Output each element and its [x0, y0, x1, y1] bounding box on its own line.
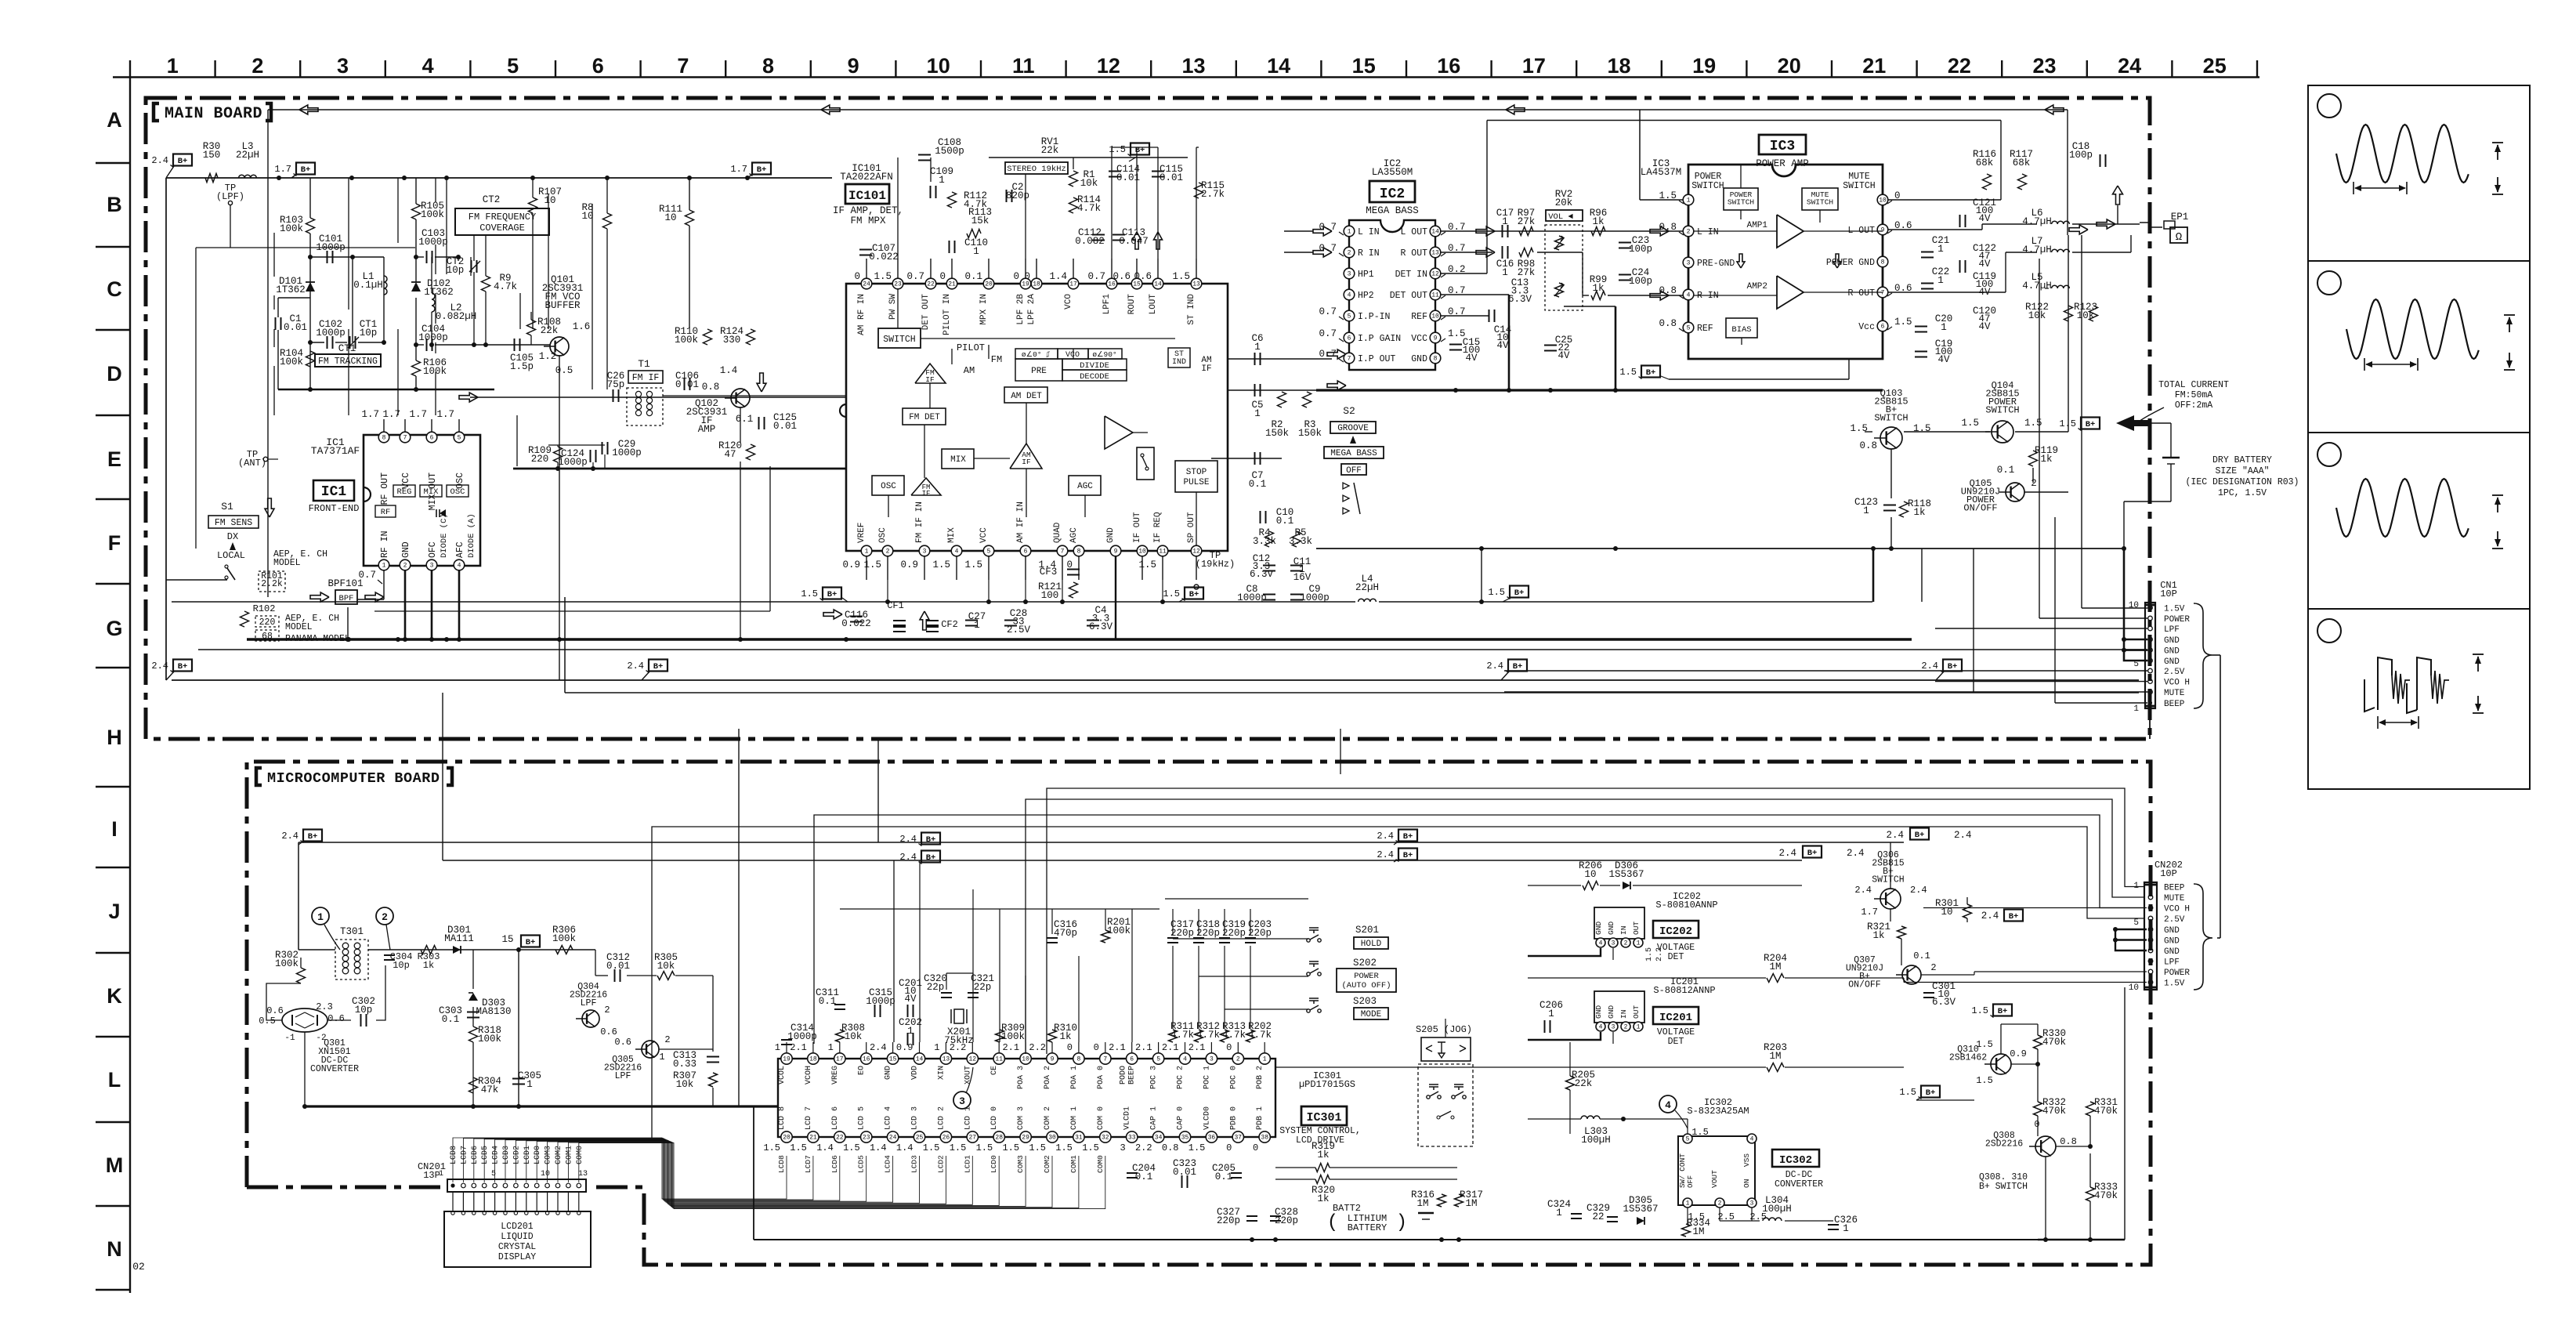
wire L1 column: [383, 257, 385, 345]
svg-text:HOLD: HOLD: [1361, 940, 1382, 949]
open arrow right into IC3 L IN: [1650, 226, 1669, 236]
svg-text:220p: 220p: [1222, 928, 1246, 939]
svg-text:1: 1: [865, 549, 869, 556]
diode D102 1T362: [411, 282, 421, 291]
trimmer CT2: [471, 260, 472, 273]
open arrow down S1: [265, 498, 274, 517]
svg-text:0.7: 0.7: [1319, 243, 1337, 254]
resistor R320 1k: [1315, 1175, 1330, 1184]
capacitor C12 3.3 6.3V: [1263, 565, 1275, 567]
capacitor C27 1: [965, 620, 978, 621]
capacitor C102 1000p: [327, 336, 328, 349]
wire Q102 column: [740, 407, 741, 443]
wire IC301 area verticals: [999, 909, 1000, 1042]
svg-text:220: 220: [531, 454, 549, 465]
svg-text:2.4: 2.4: [1377, 831, 1394, 842]
svg-text:23: 23: [2032, 54, 2056, 78]
svg-text:10k: 10k: [845, 1031, 863, 1042]
B+ label 2.4 row G left: [173, 660, 192, 672]
resistor R96 1k: [1591, 227, 1605, 236]
svg-text:13: 13: [1431, 250, 1439, 257]
svg-text:DIODE (A): DIODE (A): [467, 513, 476, 558]
svg-text:LCD 5: LCD 5: [858, 1106, 867, 1130]
svg-text:MEGA BASS: MEGA BASS: [1366, 205, 1419, 216]
svg-text:H: H: [107, 726, 122, 749]
svg-text:1.5: 1.5: [1082, 1142, 1099, 1153]
svg-text:SWITCH: SWITCH: [1872, 875, 1904, 885]
brace CN1 harness: [2194, 603, 2212, 708]
svg-text:4.7µH: 4.7µH: [2022, 244, 2052, 255]
svg-text:LCD 7: LCD 7: [805, 1106, 813, 1130]
svg-text:1.4: 1.4: [870, 1142, 887, 1153]
svg-text:7: 7: [1348, 356, 1351, 363]
svg-text:AM RF IN: AM RF IN: [857, 294, 867, 335]
svg-text:LCD0: LCD0: [534, 1146, 542, 1164]
connector CN201 pins: [450, 1183, 454, 1187]
svg-text:COM3: COM3: [1016, 1155, 1025, 1173]
svg-text:2.1: 2.1: [1189, 1042, 1206, 1053]
waveform circle 1: [2317, 94, 2341, 118]
IC1 top pins: [378, 432, 389, 443]
svg-text:32: 32: [1102, 1135, 1109, 1142]
svg-text:7: 7: [403, 435, 407, 442]
svg-text:15: 15: [501, 934, 513, 945]
amplitude arrows 1: [2492, 142, 2503, 143]
svg-text:2: 2: [2031, 478, 2037, 489]
IC101 internal AM IF triangle: [1010, 444, 1042, 469]
svg-text:POWER: POWER: [2164, 615, 2190, 625]
wire BPF to IC1: [357, 599, 384, 600]
svg-text:0.5: 0.5: [259, 1016, 276, 1027]
MAIN BOARD outline: [146, 98, 2150, 739]
svg-text:): ): [1396, 1212, 1407, 1233]
svg-text:10k: 10k: [2077, 310, 2095, 321]
IC3 internal AMP1 triangle: [1777, 215, 1804, 248]
svg-text:1T362: 1T362: [424, 287, 454, 298]
svg-text:PILOT: PILOT: [957, 342, 985, 353]
period arrow 4: [2377, 716, 2379, 729]
svg-text:15k: 15k: [971, 215, 990, 226]
svg-text:SWITCH: SWITCH: [1843, 181, 1875, 191]
svg-text:220p: 220p: [1217, 1215, 1240, 1226]
svg-text:0.01: 0.01: [1173, 1167, 1196, 1178]
open arrow right into IC3 R IN: [1650, 291, 1669, 300]
IC101 internal PRE box: [1015, 359, 1062, 381]
svg-text:9: 9: [1434, 335, 1438, 342]
svg-text:0: 0: [2034, 1119, 2039, 1130]
svg-text:1: 1: [1254, 342, 1261, 353]
svg-text:6.1: 6.1: [736, 414, 754, 425]
svg-text:1.5: 1.5: [801, 588, 818, 599]
svg-text:IC301: IC301: [1306, 1111, 1341, 1124]
open arrow right BPF out: [365, 592, 384, 602]
svg-text:13: 13: [942, 1056, 950, 1063]
svg-text:20: 20: [985, 281, 993, 288]
svg-text:2: 2: [251, 54, 263, 78]
svg-text:4: 4: [422, 54, 434, 78]
svg-text:4.7µH: 4.7µH: [2022, 281, 2052, 291]
svg-text:16: 16: [1437, 54, 1460, 78]
svg-text:(IEC DESIGNATION R03): (IEC DESIGNATION R03): [2186, 477, 2299, 487]
svg-text:COM1: COM1: [1069, 1155, 1078, 1173]
svg-text:36: 36: [1208, 1135, 1216, 1142]
svg-text:1.4: 1.4: [896, 1142, 914, 1153]
svg-text:220p: 220p: [1248, 928, 1272, 939]
svg-text:22k: 22k: [1041, 145, 1059, 156]
wire vertical thick GND from above: [2123, 549, 2126, 639]
IC3 right pins: [1877, 194, 1888, 205]
svg-text:FM MPX: FM MPX: [850, 215, 886, 226]
svg-text:1k: 1k: [1059, 1031, 1071, 1042]
svg-text:L OUT: L OUT: [1400, 227, 1427, 237]
svg-text:0.8: 0.8: [1162, 1142, 1179, 1153]
wire D303 column: [472, 950, 474, 989]
resistor R124 330: [747, 329, 755, 345]
svg-text:LPF: LPF: [615, 1071, 631, 1081]
svg-text:HP2: HP2: [1358, 291, 1374, 301]
wire REF to C14: [1441, 315, 1489, 317]
svg-text:100p: 100p: [1629, 244, 1652, 255]
svg-text:GND: GND: [1594, 1005, 1603, 1019]
svg-text:0.9: 0.9: [896, 1042, 914, 1053]
svg-text:TOTAL CURRENT: TOTAL CURRENT: [2158, 380, 2229, 390]
svg-text:LCD0: LCD0: [990, 1155, 998, 1173]
svg-text:COM 0: COM 0: [1097, 1106, 1105, 1130]
IC301 body: [778, 1059, 1275, 1137]
svg-text:1M: 1M: [1692, 1226, 1704, 1237]
svg-text:VCO: VCO: [1064, 294, 1073, 310]
svg-text:E: E: [107, 447, 121, 471]
svg-text:10: 10: [2129, 601, 2139, 610]
svg-text:2.4: 2.4: [1910, 885, 1927, 896]
IC1 boxed label: [313, 480, 354, 501]
svg-text:TA7371AF: TA7371AF: [311, 445, 360, 457]
svg-text:1: 1: [1937, 275, 1944, 286]
wire IC2 DET IN to mute net: [1441, 273, 1487, 274]
IC3 boxed label: [1759, 135, 1806, 154]
svg-text:470k: 470k: [2094, 1106, 2118, 1117]
svg-text:2.4: 2.4: [151, 155, 168, 166]
IC2 boxed label: [1369, 181, 1415, 202]
svg-text:2.1: 2.1: [1109, 1042, 1126, 1053]
svg-text:6: 6: [430, 435, 434, 442]
svg-text:IND: IND: [1172, 358, 1186, 367]
B+ label 2.4 row G mid: [649, 660, 668, 672]
svg-text:1.5: 1.5: [1850, 423, 1868, 434]
svg-text:1M: 1M: [1416, 1198, 1428, 1209]
svg-text:1.5: 1.5: [1138, 559, 1156, 570]
IC101 internal phase boxes: [1015, 349, 1058, 359]
svg-text:(19kHz): (19kHz): [1196, 559, 1235, 570]
svg-text:7: 7: [1881, 290, 1885, 297]
svg-text:-1: -1: [284, 1034, 295, 1043]
svg-text:POWER: POWER: [2164, 969, 2190, 978]
svg-text:IC3: IC3: [1770, 139, 1795, 154]
B+ label 1.5 micro right: [1993, 1005, 2012, 1016]
MICROCOMPUTER BOARD outline left bottom segment: [247, 1186, 443, 1189]
svg-text:9: 9: [1114, 549, 1118, 556]
svg-text:2: 2: [664, 1034, 670, 1045]
svg-text:15: 15: [889, 1056, 897, 1063]
svg-text:0.8: 0.8: [1859, 440, 1877, 451]
svg-text:(ANT): (ANT): [238, 458, 266, 469]
svg-text:16: 16: [863, 1056, 870, 1063]
svg-text:MODEL: MODEL: [273, 558, 301, 568]
svg-text:POC 3: POC 3: [1150, 1066, 1159, 1089]
svg-text:VLCD1: VLCD1: [1123, 1106, 1132, 1130]
svg-text:17: 17: [1069, 281, 1077, 288]
wire left vertical bus: [165, 178, 167, 680]
wire 2.4 B+ drop to IC301: [893, 860, 895, 1042]
wire arrow to EP1 row: [2117, 205, 2118, 224]
svg-text:4: 4: [1687, 292, 1691, 299]
wire R105 column: [415, 178, 417, 204]
capacitor C104 1000p: [426, 339, 428, 351]
wire B+ row to Q310: [1916, 1099, 1974, 1101]
waveform circle 4: [2317, 619, 2341, 643]
svg-text:1.5: 1.5: [964, 559, 982, 570]
svg-text:1: 1: [1937, 244, 1944, 255]
svg-text:B+: B+: [1998, 1007, 2008, 1016]
svg-text:4: 4: [1599, 1024, 1603, 1031]
svg-text:MIX: MIX: [424, 487, 440, 497]
wires above IC101: [897, 158, 899, 259]
svg-text:470p: 470p: [1054, 928, 1077, 939]
svg-text:B+: B+: [757, 165, 767, 175]
svg-text:470k: 470k: [2042, 1106, 2066, 1117]
wire C317 row columns continue: [1172, 946, 1174, 1029]
IC101 internal mute switch box: [1137, 447, 1154, 480]
svg-text:REF: REF: [1697, 324, 1713, 334]
svg-text:0.1: 0.1: [819, 996, 837, 1007]
circled number 3: [953, 1092, 971, 1109]
open arrow left top right: [2045, 105, 2064, 114]
svg-text:DET IN: DET IN: [1395, 270, 1427, 280]
open arrow right after R OUT: [1476, 248, 1495, 257]
svg-text:100k: 100k: [552, 933, 576, 944]
wire IC101 GND pin to ground bus: [1115, 556, 1116, 639]
period arrow 2: [2364, 358, 2365, 371]
svg-text:1.5: 1.5: [2059, 418, 2076, 429]
svg-text:10: 10: [544, 195, 555, 206]
open arrow right CF1: [823, 610, 842, 619]
svg-text:GND: GND: [401, 541, 411, 558]
svg-text:POA 0: POA 0: [1097, 1066, 1105, 1089]
IC101 internal AM DET box: [1004, 387, 1047, 403]
MAIN BOARD title bracket left: [154, 103, 159, 121]
svg-text:2.4: 2.4: [1847, 848, 1865, 859]
IC101 internal ST IND box: [1168, 348, 1190, 368]
wire 1.5 B+ row F: [172, 601, 846, 603]
open arrow right into IC2 L IN: [1313, 226, 1332, 236]
svg-text:100k: 100k: [1001, 1031, 1025, 1042]
svg-text:FM IF IN: FM IF IN: [915, 501, 924, 543]
wire drop to IC3 power switch net: [1639, 110, 1641, 200]
svg-text:COM2: COM2: [1043, 1155, 1051, 1173]
svg-text:6: 6: [1024, 549, 1028, 556]
wire CN201 to LCD201 pins: [452, 1192, 454, 1211]
svg-text:IF AMP, DET,: IF AMP, DET,: [833, 205, 903, 216]
wire left vertical micro: [298, 842, 299, 950]
svg-text:2: 2: [1624, 1024, 1628, 1031]
svg-text:5: 5: [491, 1170, 496, 1179]
svg-text:02: 02: [132, 1261, 145, 1273]
open arrow right into IC2 R IN: [1313, 248, 1332, 257]
svg-text:1.4: 1.4: [720, 365, 738, 376]
svg-text:A: A: [107, 108, 122, 132]
svg-text:0.1: 0.1: [1276, 516, 1294, 527]
svg-text:1.5: 1.5: [1488, 587, 1505, 598]
svg-text:10: 10: [1022, 1056, 1029, 1063]
svg-text:4: 4: [955, 549, 959, 556]
svg-text:VCO H: VCO H: [2164, 905, 2190, 914]
wire inter-board vertical x565: [442, 693, 443, 860]
svg-text:MA8130: MA8130: [476, 1006, 511, 1017]
svg-text:0.6: 0.6: [1113, 271, 1131, 282]
svg-text:N: N: [107, 1237, 122, 1261]
svg-text:GND: GND: [1607, 922, 1615, 935]
wire CN1 BEEP feed: [2055, 702, 2147, 704]
resistor R104 100k: [306, 351, 315, 367]
connector CN1 body: [2145, 603, 2155, 708]
svg-text:IF: IF: [922, 490, 931, 498]
svg-text:FM SENS: FM SENS: [215, 518, 252, 528]
svg-text:OFF: OFF: [1687, 1175, 1695, 1188]
svg-text:VCO H: VCO H: [2164, 679, 2190, 688]
B+ label 2.4 micro top-left: [303, 830, 322, 842]
wire R OUT to R99 row: [1537, 252, 1583, 253]
svg-text:0.1µH: 0.1µH: [353, 280, 383, 291]
wire main board left-mid verticals: [348, 178, 349, 310]
svg-text:2: 2: [1718, 1200, 1722, 1208]
wire IC101 left notch area: [840, 404, 846, 417]
switch S201 HOLD: [1307, 939, 1310, 942]
svg-text:OUT: OUT: [1632, 1005, 1641, 1019]
resistor R120 47: [747, 444, 755, 460]
svg-text:CONVERTER: CONVERTER: [310, 1064, 359, 1074]
svg-text:3: 3: [923, 549, 927, 556]
crystal X201 75kHz: [954, 1009, 964, 1023]
wire Q301 circuit: [266, 983, 301, 1020]
svg-text:3: 3: [1612, 1024, 1615, 1031]
capacitor C11 16V: [1290, 565, 1303, 567]
IC3 internal AMP2 triangle: [1777, 276, 1804, 309]
svg-text:AGC: AGC: [1069, 527, 1079, 543]
svg-text:17: 17: [836, 1056, 844, 1063]
svg-text:10: 10: [664, 212, 676, 223]
svg-text:1: 1: [2133, 704, 2139, 714]
svg-text:24: 24: [2118, 54, 2141, 78]
svg-text:75kHz: 75kHz: [944, 1035, 974, 1046]
svg-text:15: 15: [1352, 54, 1376, 78]
svg-text:1k: 1k: [1317, 1193, 1329, 1204]
svg-text:B+: B+: [526, 938, 536, 947]
open arrow left top mid2: [1506, 105, 1525, 114]
wire IC2 L OUT row: [1441, 230, 1683, 232]
svg-text:1k: 1k: [1592, 283, 1604, 294]
svg-text:1.5: 1.5: [1976, 1075, 1993, 1086]
svg-text:CONT: CONT: [1678, 1153, 1687, 1171]
svg-text:B+: B+: [2086, 420, 2096, 429]
svg-text:2.4: 2.4: [899, 834, 917, 845]
svg-text:STEREO 19kHz: STEREO 19kHz: [1007, 165, 1066, 174]
svg-text:GND: GND: [2164, 636, 2180, 646]
resistor R110 100k: [704, 329, 712, 345]
svg-text:AMP2: AMP2: [1747, 282, 1767, 291]
wire mute net vertical left: [1486, 121, 1488, 274]
sine wave 3: [2336, 479, 2469, 537]
svg-text:Vcc: Vcc: [1858, 322, 1875, 332]
IC2 left pins: [1344, 226, 1355, 237]
svg-text:MODEL: MODEL: [285, 622, 313, 632]
svg-text:150k: 150k: [1298, 428, 1322, 439]
svg-text:LCD7: LCD7: [804, 1155, 812, 1173]
svg-text:IF OUT: IF OUT: [1133, 512, 1142, 543]
wire IC101 bottom bus: [846, 601, 1211, 603]
svg-text:BEEP: BEEP: [2164, 884, 2185, 893]
svg-text:2: 2: [886, 549, 890, 556]
svg-text:1.5: 1.5: [1961, 418, 1979, 429]
svg-text:7: 7: [1061, 549, 1065, 556]
inductor L3 22uH: [239, 175, 257, 178]
svg-text:24: 24: [863, 281, 870, 288]
svg-text:100p: 100p: [1629, 276, 1652, 287]
capacitor C16 1: [1502, 246, 1503, 259]
wire vertical right area x2603: [2039, 259, 2040, 618]
wire CT2 column: [458, 257, 459, 261]
svg-text:LCD 3: LCD 3: [911, 1106, 920, 1130]
svg-text:4: 4: [458, 563, 461, 570]
wire CN202 GND thick feeds: [2115, 929, 2147, 930]
svg-text:6.3V: 6.3V: [1508, 294, 1532, 305]
capacitor C110 1: [949, 241, 950, 253]
svg-text:CF3: CF3: [1040, 567, 1058, 578]
svg-text:1.5: 1.5: [1894, 317, 1912, 328]
svg-text:1M: 1M: [1769, 1051, 1781, 1062]
capacitor C124 1000p: [590, 450, 592, 462]
open arrow right BPF in: [310, 592, 329, 602]
svg-text:CT1: CT1: [338, 343, 356, 354]
svg-text:0.7: 0.7: [1319, 306, 1337, 317]
svg-text:MPX IN: MPX IN: [979, 294, 989, 325]
IC1 bottom pins: [378, 559, 389, 570]
B+ label 1.5 top IC101: [1131, 143, 1149, 155]
svg-text:47: 47: [724, 449, 736, 460]
svg-text:8: 8: [762, 54, 774, 78]
svg-text:6: 6: [592, 54, 604, 78]
svg-text:QUAD: QUAD: [1053, 522, 1062, 543]
wire C103 row: [416, 256, 424, 258]
resistor R9 4.7k: [482, 276, 490, 291]
svg-text:TA2022AFN: TA2022AFN: [840, 172, 893, 183]
IC3 internal MUTE SWITCH box: [1802, 188, 1838, 210]
svg-text:2.1: 2.1: [1135, 1042, 1152, 1053]
svg-text:35: 35: [1181, 1135, 1189, 1142]
svg-text:PRE: PRE: [1031, 367, 1047, 376]
waveform panel box 3: [2308, 433, 2530, 609]
svg-text:10P: 10P: [2160, 588, 2177, 599]
svg-text:1.4: 1.4: [1049, 271, 1067, 282]
svg-text:RF OUT: RF OUT: [380, 473, 390, 505]
wire Q105 area: [2024, 491, 2068, 493]
svg-text:4: 4: [1348, 292, 1351, 299]
wire R205 column: [1569, 1042, 1571, 1076]
capacitor C23 100p: [1619, 242, 1631, 244]
svg-text:IC101: IC101: [848, 189, 886, 203]
svg-text:LA4537M: LA4537M: [1641, 167, 1682, 178]
IC301 bottom pin wires to CN201 harness bundle: [453, 1138, 787, 1199]
transistor Q301 XN1501 dual: [282, 1008, 327, 1032]
